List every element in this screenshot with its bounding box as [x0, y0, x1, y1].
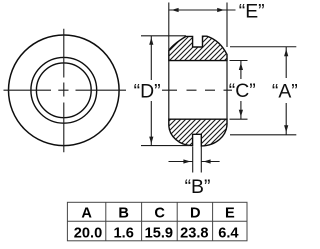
bore right wall [226, 61, 228, 120]
table header row [81, 206, 235, 222]
dimension D line [150, 36, 152, 145]
svg-text:D: D [190, 206, 201, 222]
horizontal centerline (front view) [4, 89, 127, 91]
grommet bore circle (front view) [36, 63, 91, 118]
dimension B left arrowhead [183, 159, 190, 163]
section dashed centerline [162, 89, 232, 91]
dimension C arrow down [239, 110, 243, 117]
dimension B left arrow line [169, 161, 193, 163]
svg-text:“E”: “E” [239, 1, 265, 23]
dimension A arrow up [284, 49, 288, 56]
grommet outer circle (front view) [9, 35, 120, 146]
dimension B extension line left [192, 147, 194, 173]
svg-text:E: E [225, 206, 235, 222]
dimension B extension line right [200, 147, 202, 173]
dimension D extension line top [141, 35, 186, 37]
dimension D arrow down [149, 137, 153, 144]
section bottom half (hatched) [169, 119, 227, 146]
dimension C line [240, 61, 242, 120]
svg-text:“A”: “A” [272, 80, 298, 102]
vertical centerline (front view) [63, 29, 65, 153]
svg-text:1.6: 1.6 [114, 225, 134, 241]
dimension E arrow left [171, 8, 178, 12]
dimension A arrow down [284, 125, 288, 132]
svg-text:B: B [118, 206, 129, 222]
svg-text:6.4: 6.4 [218, 225, 239, 241]
dimension E extension line left [168, 3, 170, 52]
section top half (hatched) [169, 36, 227, 60]
grommet groove circle (front view) [31, 57, 97, 123]
dimension C arrow up [239, 63, 243, 70]
dimension A extension line top [230, 46, 296, 48]
dimension C extension line bottom [230, 118, 248, 120]
table grid [67, 202, 247, 241]
dimension C extension line top [230, 60, 248, 62]
dimension E line [169, 9, 236, 11]
dimension A extension line bottom [230, 134, 296, 136]
svg-text:20.0: 20.0 [74, 225, 102, 241]
dimension D arrow up [149, 38, 153, 45]
svg-text:“C”: “C” [229, 80, 256, 102]
table data row [74, 225, 240, 241]
dimension A line [285, 47, 287, 135]
svg-text:“B”: “B” [185, 176, 211, 198]
svg-text:C: C [154, 206, 165, 222]
bore left wall [168, 61, 170, 120]
svg-text:A: A [81, 206, 92, 222]
dimension B right arrow line [201, 161, 219, 163]
dimension D extension line bottom [141, 145, 189, 147]
dimension E extension line right [226, 3, 228, 48]
svg-text:15.9: 15.9 [145, 225, 173, 241]
svg-text:“D”: “D” [134, 81, 161, 103]
svg-text:23.8: 23.8 [180, 225, 208, 241]
dimension B right arrowhead [203, 159, 210, 163]
dimension E arrow right [217, 8, 224, 12]
